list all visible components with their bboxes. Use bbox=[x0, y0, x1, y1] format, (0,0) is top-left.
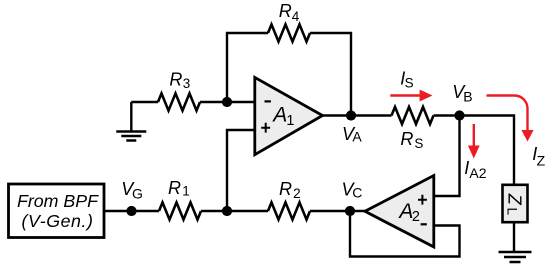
ground left bbox=[116, 102, 146, 141]
current arrow IA2 bbox=[464, 124, 487, 181]
wire ZL to ground bbox=[513, 222, 515, 252]
ground right bbox=[499, 252, 532, 262]
svg-text:2: 2 bbox=[293, 186, 301, 201]
node VA bbox=[342, 110, 362, 144]
resistor R1 bbox=[159, 178, 201, 220]
svg-text:1: 1 bbox=[182, 184, 190, 199]
svg-text:R: R bbox=[279, 179, 292, 199]
source box From BPF (V-Gen.) bbox=[9, 184, 105, 238]
svg-text:1: 1 bbox=[286, 113, 294, 129]
svg-text:4: 4 bbox=[292, 9, 300, 24]
svg-text:L: L bbox=[505, 208, 520, 216]
wire R2 to A2 apex bbox=[310, 210, 365, 212]
wire RS to VB bbox=[434, 114, 460, 116]
resistor R2 bbox=[268, 179, 310, 219]
op-amp A1 bbox=[255, 77, 323, 154]
resistor R3 bbox=[158, 70, 200, 111]
svg-text:(V-Gen.): (V-Gen.) bbox=[22, 211, 94, 231]
node VC bbox=[342, 180, 363, 217]
junction on bottom rail bbox=[222, 206, 232, 216]
svg-text:B: B bbox=[463, 88, 472, 104]
resistor R4 bbox=[268, 1, 310, 41]
impedance ZL bbox=[503, 185, 528, 222]
svg-text:A2: A2 bbox=[469, 165, 486, 181]
op-amp A2 bbox=[365, 176, 434, 247]
wire R3 to A1 - input bbox=[200, 101, 255, 103]
svg-text:G: G bbox=[132, 186, 143, 202]
wire A1 output to RS bbox=[323, 114, 392, 116]
current arrow IS bbox=[390, 69, 432, 102]
svg-text:R: R bbox=[279, 1, 292, 21]
svg-text:S: S bbox=[414, 136, 423, 151]
wire ground to R3 bbox=[131, 101, 158, 103]
svg-text:S: S bbox=[405, 76, 414, 91]
current arrow IZ bbox=[487, 96, 546, 169]
svg-text:A: A bbox=[352, 128, 362, 144]
svg-text:From BPF: From BPF bbox=[17, 191, 99, 211]
wire VB down to A2 + input bbox=[434, 116, 460, 197]
node VB bbox=[452, 82, 472, 121]
svg-text:Z: Z bbox=[505, 193, 525, 206]
svg-text:Z: Z bbox=[537, 153, 546, 169]
resistor RS bbox=[392, 107, 434, 151]
svg-text:R: R bbox=[168, 178, 181, 198]
wire VB to ZL branch bbox=[460, 116, 515, 184]
svg-text:A: A bbox=[271, 104, 287, 127]
svg-text:2: 2 bbox=[412, 209, 420, 225]
wire R4 to VA vertical bbox=[310, 33, 351, 116]
wire R1 to R2 bbox=[201, 210, 268, 212]
wire feedback left vertical up from junction bbox=[227, 33, 268, 102]
svg-text:3: 3 bbox=[183, 76, 191, 91]
wire A2 - input feedback loop to VC bbox=[350, 211, 460, 257]
svg-text:R: R bbox=[400, 129, 413, 149]
svg-text:C: C bbox=[352, 184, 362, 200]
wire box to R1 bbox=[104, 210, 159, 212]
junction on - input wire bbox=[222, 97, 232, 107]
wire junction up to A1 + input bbox=[227, 130, 255, 211]
node VG bbox=[121, 179, 143, 216]
svg-text:R: R bbox=[169, 70, 182, 90]
